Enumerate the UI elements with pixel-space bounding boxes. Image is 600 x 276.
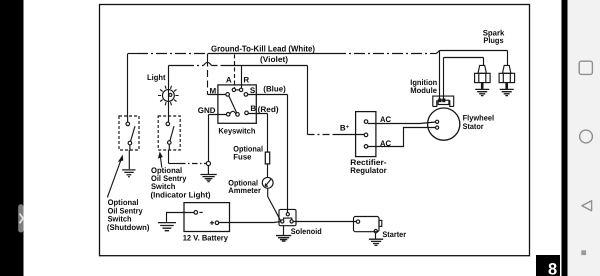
light bulb rays <box>158 86 179 106</box>
keyswitch terminal B <box>245 111 249 115</box>
shutdown switch bottom contact <box>128 141 132 145</box>
svg-text:Regulator: Regulator <box>350 166 386 175</box>
svg-text:(Blue): (Blue) <box>263 85 286 94</box>
ground symbol under shutdown switch <box>122 170 135 177</box>
spark plug left <box>475 65 491 89</box>
wire kill lead dash-dot run right <box>335 53 430 55</box>
wire kill lead solid left <box>128 53 138 55</box>
nav hint dot <box>581 250 586 255</box>
svg-text:(Shutdown): (Shutdown) <box>107 223 150 232</box>
shutdown switch lever <box>131 126 136 141</box>
flywheel stator circle <box>428 108 460 140</box>
battery minus sign <box>199 211 202 213</box>
svg-text:+: + <box>346 125 349 131</box>
wire ammeter down <box>267 188 269 196</box>
rectifier AC top terminal <box>364 120 368 124</box>
wire blue drop to solenoid <box>287 95 289 213</box>
svg-text:Ground-To-Kill Lead (White): Ground-To-Kill Lead (White) <box>211 44 315 54</box>
spark plug right <box>499 65 514 89</box>
ground symbol under battery minus <box>158 223 176 231</box>
right black divider bar <box>562 0 568 276</box>
wire GND drop <box>208 115 210 162</box>
indicator switch lever <box>170 126 174 141</box>
ammeter needle <box>265 179 271 186</box>
starter ground terminal <box>374 230 377 233</box>
solenoid lower terminal left <box>281 220 284 223</box>
svg-text:AC: AC <box>380 115 391 124</box>
starter box <box>354 217 380 232</box>
ground symbol under starter <box>369 239 383 245</box>
svg-text:Ammeter: Ammeter <box>228 186 261 195</box>
wire ammeter diagonal to solenoid <box>268 197 281 221</box>
shutdown switch top contact <box>126 122 130 126</box>
wire ignition module left lead <box>439 51 441 102</box>
ignition module inner block <box>438 100 449 104</box>
nav home circle <box>580 130 593 143</box>
svg-text:AC: AC <box>380 139 391 148</box>
svg-text:GND: GND <box>198 106 216 115</box>
wire indicator contact stub <box>168 144 170 150</box>
keyswitch terminal A <box>232 88 235 91</box>
ground symbol under solenoid <box>276 236 291 242</box>
ammeter circle <box>262 177 273 188</box>
svg-text:S: S <box>250 86 256 95</box>
wire indicator switch drop <box>168 150 170 164</box>
wire ignition module right lead <box>443 58 445 102</box>
arrow to shutdown box <box>107 156 122 197</box>
wire violet crossover bump <box>204 62 212 65</box>
wire kill lead dash-dot run left <box>137 53 210 55</box>
wire S blue horizontal <box>248 94 288 96</box>
wire solenoid to ground <box>283 226 285 236</box>
ground symbol under right plug <box>500 89 514 95</box>
wire AC top to stator <box>368 122 436 124</box>
wire GND horizontal <box>209 114 227 116</box>
keyswitch lever <box>229 96 237 113</box>
ignition module lead blob left <box>439 99 441 102</box>
diagram frame <box>100 5 530 256</box>
wire left spark plug drop <box>483 58 485 66</box>
wire fuse to ammeter <box>267 164 269 178</box>
light bulb circle <box>163 90 175 102</box>
oil sentry shutdown box <box>119 116 139 150</box>
nav back triangle <box>582 201 592 211</box>
svg-text:(Violet): (Violet) <box>260 55 288 64</box>
wire kill-lead left drop to shutdown switch <box>127 54 129 116</box>
wire shutdown to ground <box>128 145 131 169</box>
junction ring <box>206 161 210 165</box>
stator terminal bottom <box>436 126 439 129</box>
svg-text:(Red): (Red) <box>258 105 279 114</box>
wire B red horizontal <box>248 113 267 115</box>
starter shaft tab <box>379 220 382 226</box>
wire starter to ground <box>375 233 377 239</box>
keyswitch box <box>218 85 256 123</box>
wire B+ into rectifier <box>334 134 364 136</box>
ignition module left foot <box>433 100 437 106</box>
svg-text:8: 8 <box>548 261 557 276</box>
wire indicator to junction dash-dot <box>180 163 206 165</box>
wire to right spark plug <box>440 50 508 52</box>
solenoid contact bar <box>284 218 292 220</box>
page number box <box>536 255 560 276</box>
ground symbol under left plug <box>475 89 489 95</box>
wire violet dash segment <box>186 65 204 67</box>
wire battery plus to solenoid <box>219 221 281 224</box>
wire M horizontal <box>208 94 226 96</box>
rectifier-regulator box <box>356 112 376 157</box>
starter input terminal <box>356 220 359 223</box>
arrow to indicator box <box>159 153 162 168</box>
keyswitch terminal R <box>239 88 242 91</box>
wire kill lead kink up <box>436 51 439 54</box>
wire A-R link <box>236 89 240 91</box>
wire B+ dash-dot run <box>308 134 335 136</box>
fuse body <box>265 152 269 164</box>
nav recents square <box>579 61 592 74</box>
ground symbol under keyswitch <box>200 175 216 182</box>
svg-text:Fuse: Fuse <box>233 153 252 162</box>
wire light drop <box>168 66 170 123</box>
solenoid lower terminal right <box>290 220 293 223</box>
wire M riser dashed <box>207 60 209 95</box>
wire M riser solid top <box>207 54 209 60</box>
keyswitch terminal M <box>226 93 230 97</box>
wire junction to ground <box>207 166 209 174</box>
oil sentry indicator box <box>158 116 180 150</box>
rectifier B+ terminal <box>364 133 368 137</box>
battery plus sign <box>210 221 214 225</box>
ignition module outer staple <box>433 96 454 107</box>
solenoid box <box>279 209 296 225</box>
left black sidebar <box>0 0 24 276</box>
wire right spark plug drop <box>507 51 509 66</box>
wire into shutdown box <box>127 116 129 122</box>
svg-text:Flywheel: Flywheel <box>463 113 495 122</box>
wire indicator to junction solid <box>169 163 181 165</box>
wire violet right of bump <box>212 65 225 67</box>
wire A dashed riser <box>234 55 236 89</box>
wire AC bottom to stator <box>368 128 436 147</box>
keyswitch gnd arc <box>230 111 236 114</box>
indicator switch bottom contact <box>168 141 172 145</box>
indicator switch top contact <box>166 122 170 126</box>
svg-text:B: B <box>250 104 256 113</box>
ignition module right foot <box>450 100 454 106</box>
wire violet horizontal from light <box>169 65 187 67</box>
svg-text:Stator: Stator <box>463 122 484 131</box>
keyswitch terminal GND1 <box>226 113 230 117</box>
battery plus terminal <box>215 221 219 225</box>
svg-text:(Indicator Light): (Indicator Light) <box>151 190 211 199</box>
wire battery minus to ground <box>167 213 195 222</box>
battery minus terminal <box>194 211 198 215</box>
wire kill lead right solid <box>430 53 436 55</box>
svg-text:Keyswitch: Keyswitch <box>218 126 255 135</box>
battery box <box>184 203 230 232</box>
stator terminal top <box>436 120 439 123</box>
svg-text:M: M <box>210 87 217 96</box>
keyswitch terminal GND2 <box>236 113 240 117</box>
svg-text:Module: Module <box>410 86 437 95</box>
wire solenoid to starter <box>293 221 356 223</box>
svg-text:Light: Light <box>147 73 166 82</box>
svg-text:12 V. Battery: 12 V. Battery <box>183 234 229 243</box>
wire R riser <box>241 66 243 89</box>
right nav panel <box>568 0 600 276</box>
svg-text:Plugs: Plugs <box>483 36 504 45</box>
wire to left spark plug <box>444 57 484 59</box>
page-turn chevron <box>20 214 23 223</box>
keyswitch terminal S <box>244 93 248 97</box>
ignition module lead blob right <box>443 99 445 102</box>
svg-text:Starter: Starter <box>382 230 406 239</box>
svg-text:R: R <box>243 75 249 84</box>
light bulb inner contact <box>169 93 172 96</box>
svg-text:A: A <box>226 75 232 84</box>
rectifier AC bottom terminal <box>364 145 368 149</box>
page-turn button tab <box>18 204 23 232</box>
wire violet to corner <box>224 65 308 67</box>
svg-text:Solenoid: Solenoid <box>291 227 322 236</box>
wire kill lead solid middle <box>210 53 335 55</box>
solenoid top terminal <box>286 213 289 216</box>
wire violet vertical drop <box>307 66 309 135</box>
wire red drop to fuse <box>267 114 269 153</box>
